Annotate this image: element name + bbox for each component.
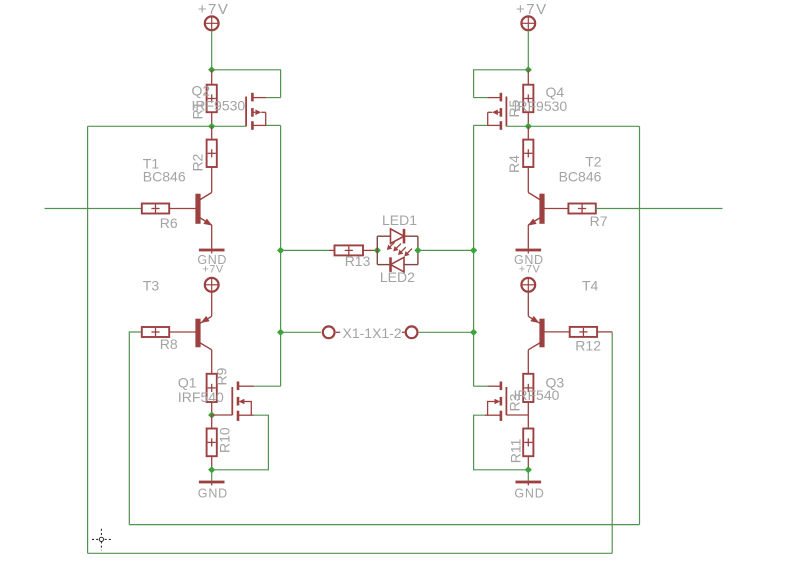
svg-text:T3: T3 [143,278,160,294]
node R2j junction [525,123,532,130]
resistor R3 [523,350,533,415]
node M5 junction [277,329,284,336]
wire M1 to R13 [281,249,329,251]
wire R8 corner left [129,332,142,525]
resistor R6 [142,204,196,214]
transistor T3 PNP [196,316,212,350]
LED emission arrows [387,242,412,256]
wire bottom inner horizontal [129,524,639,526]
resistor R5 [523,70,533,127]
ground symbol under T1 [199,249,225,252]
wire right inner vertical (Q4 gate rail) [639,126,641,524]
wire input right [596,208,723,210]
wire Q3 gate lead [506,414,528,416]
resistor R11 [523,415,533,470]
svg-text:BC846: BC846 [143,169,186,185]
connector pin X1-1 [323,326,340,338]
svg-text:R10: R10 [217,427,233,453]
supply +7V symbol top-right [521,16,535,30]
svg-text:IRF9530: IRF9530 [514,98,568,114]
resistor R13 [329,245,377,255]
svg-text:+7V: +7V [198,1,230,18]
wire node R4j to ground [527,470,529,481]
wire Q1 gate lead [212,414,233,416]
transistor Q2 IRF9530 P-MOSFET [246,93,281,130]
svg-text:LED1: LED1 [382,212,417,228]
supply +7V symbol top-left [205,16,219,30]
wire +7V top-right to node R1j [527,31,529,70]
wire gate rail left (node L2 to outer-left vertical) [88,125,247,127]
wire +7V to T4 emitter [527,292,529,316]
svg-text:R8: R8 [160,336,178,352]
wire left bus [280,125,282,386]
transistor T1 BC846 NPN [196,193,213,249]
wire right bus [473,125,475,386]
wire Q3 source loop [474,415,529,470]
svg-text:T2: T2 [585,154,602,170]
node M2 junction [374,247,381,254]
ground symbol bottom-right [516,481,542,484]
node M3 junction [414,247,421,254]
sheet origin crosshair [92,529,112,551]
svg-text:+7V: +7V [202,263,224,275]
svg-text:R9: R9 [213,367,229,385]
svg-text:IRF540: IRF540 [178,389,224,405]
wire node R1j to right bus corner [474,70,529,98]
node L3 junction [208,411,215,418]
ground symbol under T2 [516,249,542,252]
ground symbol bottom-left [199,481,225,484]
wire +7V to T3 emitter [211,292,213,316]
svg-text:T4: T4 [582,278,599,294]
supply +7V symbol mid-left [205,278,219,292]
node L1 junction [208,66,215,73]
resistor R7 [544,204,596,214]
svg-text:R4: R4 [506,155,522,173]
diode LED2 [391,257,405,272]
node M6 junction [470,329,477,336]
transistor Q3 IRF540 N-MOSFET (mirrored) [474,382,507,421]
resistor R10 [207,415,217,470]
svg-text:LED2: LED2 [380,269,415,285]
wire input left [45,208,142,210]
svg-text:IRF9530: IRF9530 [192,98,246,114]
LED bridge frame [377,236,418,264]
transistor T4 PNP (mirrored) [528,316,544,350]
node M4 junction [470,247,477,254]
node L4 junction [208,466,215,473]
wire +7V top-left to node L1 [211,31,213,70]
resistor R8 [142,327,196,337]
wire M3 to right bus [418,249,474,251]
svg-text:BC846: BC846 [559,169,602,185]
svg-text:R7: R7 [590,213,608,229]
node L2 junction [208,123,215,130]
connector pin X1-2 [402,326,418,338]
wire gate rail right [506,125,639,127]
resistor R9 [207,350,217,415]
diode LED1 [391,229,405,244]
resistor R4 [523,126,533,192]
node R4j junction [525,466,532,473]
node M1 junction [277,247,284,254]
wire bottom outer horizontal [88,552,613,554]
transistor T2 BC846 NPN (mirrored) [528,193,545,249]
resistor R12 [544,327,612,337]
supply +7V symbol mid-right [521,278,535,292]
svg-text:R2: R2 [189,153,205,171]
wire node L4 to ground [211,470,213,481]
svg-text:R11: R11 [507,438,523,463]
svg-text:R6: R6 [160,215,178,231]
svg-text:GND: GND [198,486,228,500]
svg-text:+7V: +7V [516,1,548,18]
svg-text:Q1: Q1 [178,374,197,390]
transistor Q4 IRF9530 P-MOSFET (mirrored) [474,93,507,130]
wire X1-2 to right bus [419,331,474,333]
resistor R2 [207,126,217,192]
svg-text:GND: GND [514,486,544,500]
transistor Q1 IRF540 N-MOSFET [232,382,280,421]
resistor R1 [207,70,217,127]
svg-text:Q2: Q2 [192,83,211,99]
wire right vertical to R12 [611,332,613,553]
wire Q1 source loop [212,415,269,470]
svg-text:+7V: +7V [519,263,541,275]
wire M5 to X1-1 [281,331,321,333]
svg-text:R13: R13 [345,253,371,269]
svg-text:IRF540: IRF540 [514,387,560,403]
svg-text:X1-1X1-2: X1-1X1-2 [343,325,402,341]
wire left outer vertical [87,126,89,553]
wire node L1 to left bus corner [212,70,281,98]
svg-text:R12: R12 [575,338,601,354]
node R1j junction [525,66,532,73]
